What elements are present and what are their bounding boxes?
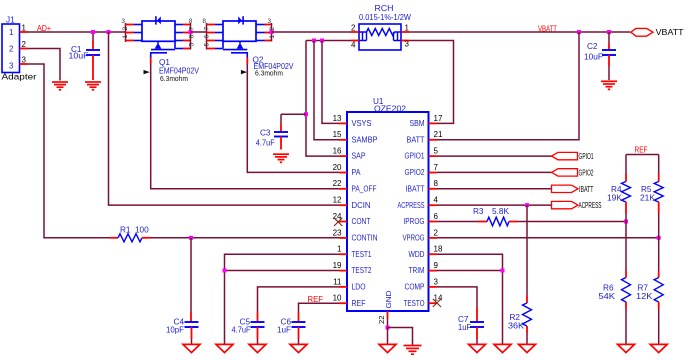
svg-text:6: 6 [204,35,211,39]
wire COMP pin 3 to C7 [437,287,477,308]
svg-text:J1: J1 [6,16,15,25]
svg-text:54K: 54K [599,292,616,301]
wire Q1 gate to U1 PA_OFF [151,64,339,189]
U1 left pin names [352,119,378,308]
svg-text:BATT: BATT [407,135,425,144]
svg-text:2: 2 [9,44,14,53]
ground triangle C5 [249,344,266,352]
svg-text:WDD: WDD [409,250,425,259]
svg-text:6: 6 [189,35,196,39]
junction TEST2 [223,269,227,273]
wire IBATT pin 8 [437,188,552,190]
svg-text:COMP: COMP [405,283,425,292]
Q1 gate arrow [144,70,150,74]
svg-text:2: 2 [434,228,439,237]
op-amp U1 (IC OZE202) [347,97,429,311]
resistor R3 [473,207,518,226]
junction VPROG/R5/R7 [657,236,661,240]
svg-text:2: 2 [22,40,27,49]
ground (earth) for U1 [404,346,422,355]
U1 right pin names [398,119,425,308]
junction TRIM/WDD [501,269,505,273]
wire GPIO2 pin 7 [437,171,552,173]
ground triangle C4 [183,344,200,352]
svg-text:VPROG: VPROG [403,234,425,243]
junction ACPRESS/R2 [525,203,529,207]
wire ACPRESS to R2 [526,205,528,295]
svg-text:1: 1 [337,245,342,254]
svg-text:R3: R3 [473,207,484,216]
svg-text:7: 7 [434,163,439,172]
wire VPROG pin 2 to R7 top [437,237,659,239]
svg-text:PA: PA [352,168,361,177]
svg-text:4: 4 [351,41,356,50]
Q2 labels [253,56,294,78]
Q1 labels [159,58,199,83]
svg-text:VSYS: VSYS [352,119,372,128]
svg-text:3: 3 [9,61,14,70]
svg-text:10: 10 [333,294,342,303]
wire GPIO1 pin 5 [437,155,552,157]
off-page connector VBATT [631,28,684,37]
transistor Q1 [126,16,191,64]
junction sense/VSYS [320,39,324,43]
svg-text:SBM: SBM [410,119,425,128]
ground triangle C6 [290,344,307,352]
wire C3 tap [281,114,306,123]
junction on AD+ at C1 [91,30,95,34]
resistor R6 [599,222,631,345]
RCH pin 3 [401,40,410,49]
junction Q1 drain bus [189,30,193,34]
ground triangle C7 [469,344,486,352]
svg-text:LDO: LDO [352,283,366,292]
svg-text:REF: REF [635,146,648,155]
wire LDO pin 11 to C5 [258,287,340,312]
svg-text:5: 5 [434,147,439,156]
wire R3 to R4 bottom [518,221,627,223]
svg-text:RCH: RCH [375,4,394,13]
J1 pin 1 [20,24,28,33]
svg-text:SAMBP: SAMBP [352,135,378,144]
svg-text:3: 3 [22,56,27,65]
off-page connector ACPRESS [552,201,602,210]
svg-text:TESTO: TESTO [404,299,425,308]
svg-text:VBATT: VBATT [656,28,684,37]
svg-text:GPIO2: GPIO2 [405,168,425,177]
RCH pin 4 [351,41,359,50]
svg-text:GPIO1: GPIO1 [579,152,594,161]
svg-text:2: 2 [351,24,356,33]
resistor R7 [636,238,663,345]
wire DCIN vertical to U1 pin 12 [109,32,340,205]
svg-text:TEST2: TEST2 [352,266,372,275]
svg-text:9: 9 [434,261,439,270]
wire TRIM pin 9 [437,270,503,272]
capacitor C6 [277,312,306,344]
ground triangle U1 [379,344,396,352]
ground triangle R2 [519,344,536,352]
svg-text:4: 4 [434,196,439,205]
svg-text:CONTIN: CONTIN [352,234,378,243]
no-connect X on TESTO pin 14 [433,299,441,307]
wire J1.2 to ground [28,49,61,81]
svg-text:0.015-1%-1/2W: 0.015-1%-1/2W [359,13,411,22]
wire ACPRESS pin 4 [437,204,552,206]
no-connect X on CONT pin 24 [334,218,342,226]
wire BATT vertical to U1 pin 21 [437,32,579,140]
svg-text:10uF: 10uF [584,53,603,62]
svg-text:VBATT: VBATT [538,25,557,34]
svg-text:6: 6 [434,212,439,221]
ground (earth) for C2 [601,81,617,89]
svg-text:18: 18 [434,245,443,254]
svg-text:5.8K: 5.8K [492,207,510,216]
capacitor C1 [69,32,101,80]
ground triangle R7 [650,344,667,352]
wire REF pin 10 to C6 [299,303,340,312]
svg-text:GPIO2: GPIO2 [579,168,594,177]
J1 pin 2 [20,40,28,49]
svg-text:8: 8 [189,18,193,25]
wire Q1 to Q2 [191,31,207,33]
Q2 gate arrow [241,70,247,74]
junction C3 tap [304,112,308,116]
svg-text:12K: 12K [636,292,653,301]
junction IPROG/R4/R6 [624,220,628,224]
svg-text:GND: GND [384,291,393,309]
resistor R5 [640,155,663,238]
svg-text:36K: 36K [508,321,525,330]
wire SAP drop to U1 pin 16 [306,41,339,157]
svg-text:12: 12 [333,196,342,205]
wire TEST2 pin 19 [225,270,340,272]
svg-text:15: 15 [333,130,342,139]
svg-text:10pF: 10pF [166,326,184,335]
svg-text:7: 7 [204,27,211,31]
U1 left pin stubs [339,123,347,303]
svg-text:22: 22 [377,316,386,324]
svg-text:CONT: CONT [352,217,371,226]
wire Q2 to RCH [272,31,352,33]
wire C4 drop [190,238,192,312]
off-page connector GPIO1 [552,152,594,161]
svg-text:16: 16 [333,147,342,156]
wire Q2 gate to U1 PA [247,64,339,172]
wire VSYS drop to U1 pin 13 [322,41,339,124]
connector J1 [2,16,38,82]
svg-text:1uF: 1uF [458,323,471,332]
capacitor C5 [232,312,265,344]
wire REF rail R4-R5 [626,154,659,156]
svg-text:100: 100 [135,226,149,235]
svg-text:6.3mohm: 6.3mohm [255,69,283,78]
junction CONTIN/C4 [189,236,193,240]
svg-text:1: 1 [9,28,14,37]
svg-text:5: 5 [204,43,211,47]
capacitor C3 [256,124,288,150]
svg-text:4.7uF: 4.7uF [256,139,275,148]
wire R1 to U1 CONTIN pin 23 [151,237,340,239]
svg-text:20: 20 [333,163,342,172]
svg-text:R1: R1 [120,226,131,235]
capacitor C7 [458,308,484,345]
resistor R4 [607,155,631,222]
resistor R1 [110,226,151,242]
svg-text:11: 11 [333,277,342,286]
svg-text:5: 5 [189,43,196,47]
svg-text:TRIM: TRIM [409,266,425,275]
wire IPROG pin 6 to R3 [437,221,478,223]
svg-text:OZE202: OZE202 [374,105,407,114]
wire SAMBP drop to U1 pin 15 [314,41,339,140]
svg-text:2: 2 [269,27,276,31]
Q1 pin numbers [121,18,195,47]
U1 left pin numbers [333,114,342,303]
svg-text:8: 8 [202,18,206,25]
U1 right pin stubs [429,123,438,303]
svg-text:2: 2 [122,27,129,31]
svg-text:REF: REF [352,299,366,308]
svg-text:IBATT: IBATT [406,184,425,193]
wire RCH.3 to U1 SBM pin 17 [409,41,454,124]
wire VBATT rail from RCH.1 to off-page [409,31,630,33]
svg-text:ACPRESS: ACPRESS [398,201,425,210]
svg-text:1: 1 [122,35,129,39]
svg-text:22: 22 [333,179,342,188]
ground (earth) for C1 [85,82,101,90]
svg-text:3: 3 [405,40,410,49]
RCH pin 2 [351,24,359,33]
svg-text:13: 13 [333,114,342,123]
svg-text:21K: 21K [640,193,656,202]
svg-text:TEST1: TEST1 [352,250,372,259]
ground triangle R6 [618,344,635,352]
svg-text:IBATT: IBATT [579,185,594,194]
wire GND to triangle ground [387,328,389,345]
svg-text:17: 17 [434,114,443,123]
U1 right pin numbers [434,114,443,303]
sense-resistor RCH [359,4,411,50]
ground (earth) for J1.2 [52,82,68,90]
Q2 pin numbers [202,18,276,47]
junction GND node [386,326,390,330]
ground triangle TEST [216,344,233,352]
svg-text:3: 3 [434,277,439,286]
junction sense/SAMBP [312,39,316,43]
ground (earth) for C3 [273,154,289,162]
svg-text:C2: C2 [587,42,598,51]
capacitor C2 [584,32,616,80]
svg-text:19K: 19K [607,193,623,202]
svg-text:IPROG: IPROG [404,217,425,226]
svg-text:10uF: 10uF [69,52,89,61]
svg-text:19: 19 [333,261,342,270]
junction Q2 drain bus [270,30,274,34]
capacitor C4 [166,312,199,344]
wire J1.3 down and to R1 [28,64,111,238]
svg-text:1: 1 [22,24,27,33]
svg-text:ACPRESS: ACPRESS [579,201,602,210]
junction on AD+ at DCIN tap [107,30,111,34]
svg-text:7: 7 [189,27,196,31]
transistor Q2 [207,16,272,64]
off-page connector GPIO2 [552,168,594,177]
svg-text:1: 1 [269,35,276,39]
junction BATT tap [577,30,581,34]
svg-text:6.3mohm: 6.3mohm [160,74,188,83]
wire WDD pin 18 to ground [437,254,503,344]
svg-text:SAP: SAP [352,152,366,161]
wire AD+ from J1.1 to Q1 [28,31,126,33]
svg-text:C3: C3 [260,129,271,138]
wire TEST1 pin 1 to ground [225,254,340,344]
resistor R2 [508,296,532,345]
svg-text:4.7uF: 4.7uF [232,326,251,335]
svg-text:3: 3 [121,18,125,25]
ground triangle WDD/TRIM [494,344,511,352]
svg-text:Adapter: Adapter [2,73,38,82]
svg-text:1uF: 1uF [277,326,291,335]
U1 GND pin 22 stub [377,311,388,328]
svg-text:GPIO1: GPIO1 [405,152,425,161]
RCH pin 1 [401,24,410,33]
wire battery sense line to RCH.4 [306,40,351,42]
wire GND to earth ground [388,328,413,346]
svg-text:3: 3 [268,18,272,25]
svg-text:DCIN: DCIN [352,201,371,210]
svg-text:1: 1 [405,24,410,33]
off-page connector IBATT [552,185,594,194]
svg-text:PA_OFF: PA_OFF [352,184,377,193]
svg-text:21: 21 [434,130,443,139]
junction C2 tap [607,30,611,34]
svg-text:23: 23 [333,228,342,237]
J1 pin 3 [20,56,28,65]
svg-text:8: 8 [434,179,439,188]
